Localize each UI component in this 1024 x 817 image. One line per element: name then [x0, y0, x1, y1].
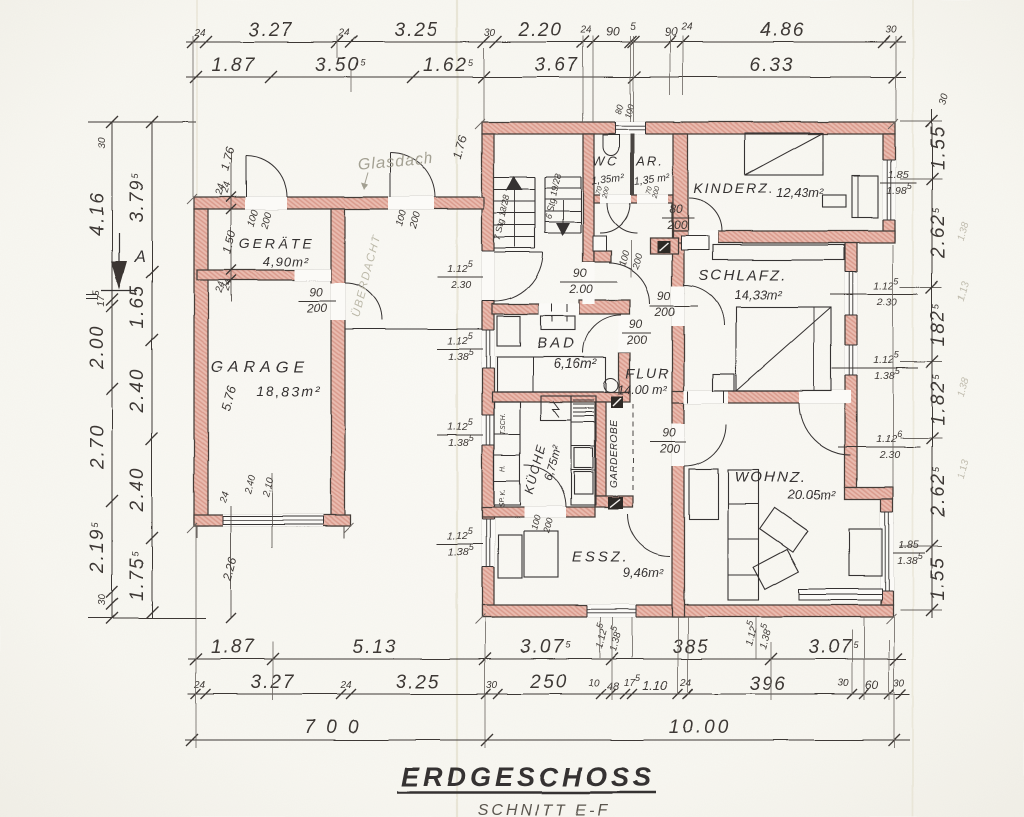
svg-text:10.00: 10.00 [669, 717, 732, 738]
svg-text:3.25: 3.25 [395, 20, 440, 41]
svg-text:24: 24 [193, 28, 206, 39]
svg-text:60: 60 [865, 678, 879, 692]
svg-text:WC: WC [592, 154, 620, 169]
svg-text:24: 24 [579, 25, 592, 36]
svg-text:FLUR: FLUR [626, 365, 671, 381]
svg-text:1.85: 1.85 [899, 539, 920, 551]
svg-text:250: 250 [529, 672, 568, 693]
svg-text:14,33m²: 14,33m² [734, 287, 782, 302]
svg-text:GARAGE: GARAGE [211, 359, 309, 376]
svg-text:1.755: 1.755 [127, 549, 148, 601]
svg-text:30: 30 [97, 594, 108, 606]
svg-text:30: 30 [885, 25, 897, 36]
svg-text:30: 30 [486, 680, 498, 691]
svg-text:90: 90 [629, 317, 643, 331]
svg-text:90: 90 [664, 25, 678, 39]
svg-text:24: 24 [337, 28, 350, 39]
svg-text:ERDGESCHOSS: ERDGESCHOSS [401, 762, 655, 792]
svg-text:30: 30 [893, 678, 905, 689]
svg-text:2.30: 2.30 [876, 296, 898, 308]
svg-text:SP.: SP. [499, 497, 506, 507]
svg-text:2.00: 2.00 [87, 325, 108, 371]
svg-text:T.SCH.: T.SCH. [500, 413, 507, 435]
svg-text:200: 200 [666, 218, 687, 232]
svg-text:1.10: 1.10 [642, 678, 668, 693]
svg-text:9,46m²: 9,46m² [623, 565, 664, 580]
svg-text:3.67: 3.67 [535, 55, 580, 76]
svg-text:20.05m²: 20.05m² [787, 487, 836, 502]
svg-text:BAD: BAD [537, 335, 577, 352]
svg-text:3.25: 3.25 [396, 672, 441, 693]
svg-text:30: 30 [837, 678, 849, 689]
svg-text:24: 24 [339, 680, 352, 691]
svg-text:A: A [134, 249, 146, 266]
svg-text:48: 48 [607, 681, 620, 693]
svg-text:30: 30 [484, 28, 496, 39]
svg-text:WOHNZ.: WOHNZ. [735, 469, 808, 486]
svg-text:6,16m²: 6,16m² [553, 355, 598, 371]
svg-text:1.55: 1.55 [928, 556, 949, 601]
svg-text:24: 24 [680, 22, 693, 33]
svg-text:2.30: 2.30 [450, 279, 472, 291]
svg-text:4,90m²: 4,90m² [263, 254, 309, 269]
svg-text:4.86: 4.86 [761, 20, 806, 41]
svg-text:24: 24 [679, 678, 692, 689]
svg-text:200: 200 [626, 333, 647, 347]
svg-text:GARDEROBE: GARDEROBE [609, 420, 620, 488]
svg-text:KINDERZ.: KINDERZ. [693, 180, 774, 196]
svg-text:18,83m²: 18,83m² [256, 383, 321, 399]
svg-text:3.795: 3.795 [127, 171, 148, 223]
svg-text:2.195: 2.195 [87, 521, 108, 574]
svg-text:7 0 0: 7 0 0 [304, 717, 361, 738]
svg-text:ESSZ.: ESSZ. [572, 549, 630, 566]
svg-text:AR.: AR. [635, 154, 664, 169]
svg-text:2.70: 2.70 [87, 424, 108, 470]
svg-text:3.075: 3.075 [520, 637, 572, 658]
svg-text:4.16: 4.16 [87, 191, 108, 236]
svg-text:90: 90 [309, 285, 323, 299]
svg-text:10: 10 [588, 678, 600, 689]
svg-text:2.40: 2.40 [127, 368, 148, 414]
svg-text:3.27: 3.27 [249, 20, 294, 41]
svg-text:SCHNITT E-F: SCHNITT E-F [478, 802, 611, 817]
svg-text:200: 200 [659, 442, 680, 456]
svg-text:H.: H. [500, 464, 507, 471]
svg-text:90: 90 [662, 426, 676, 440]
svg-text:12,43m²: 12,43m² [776, 185, 824, 200]
svg-text:6.33: 6.33 [750, 55, 795, 76]
svg-text:2.625: 2.625 [928, 465, 949, 518]
svg-text:14.00 m²: 14.00 m² [617, 383, 667, 397]
svg-text:24: 24 [193, 680, 206, 691]
svg-text:2.00: 2.00 [568, 282, 593, 296]
svg-text:1.55: 1.55 [928, 125, 949, 170]
svg-text:80: 80 [669, 202, 683, 216]
svg-text:5.13: 5.13 [353, 637, 398, 658]
svg-text:90: 90 [606, 25, 620, 39]
svg-text:30: 30 [97, 137, 108, 149]
svg-text:396: 396 [749, 674, 787, 695]
svg-text:GERÄTE: GERÄTE [239, 235, 315, 251]
svg-text:1.87: 1.87 [211, 637, 256, 658]
svg-text:1.87: 1.87 [212, 55, 257, 76]
svg-text:SCHLAFZ.: SCHLAFZ. [699, 267, 788, 284]
svg-text:2.20: 2.20 [518, 20, 564, 41]
svg-text:200: 200 [306, 301, 327, 315]
svg-text:90: 90 [573, 266, 587, 280]
svg-text:2.30: 2.30 [879, 449, 901, 461]
svg-text:1.625: 1.625 [423, 55, 475, 76]
svg-text:K.: K. [500, 489, 507, 496]
svg-text:200: 200 [654, 305, 675, 319]
svg-text:3.505: 3.505 [315, 55, 367, 76]
svg-text:2.625: 2.625 [928, 206, 949, 259]
svg-text:2.40: 2.40 [127, 467, 148, 513]
svg-text:90: 90 [657, 289, 671, 303]
svg-text:5: 5 [630, 22, 636, 33]
svg-text:1.825: 1.825 [928, 373, 949, 425]
